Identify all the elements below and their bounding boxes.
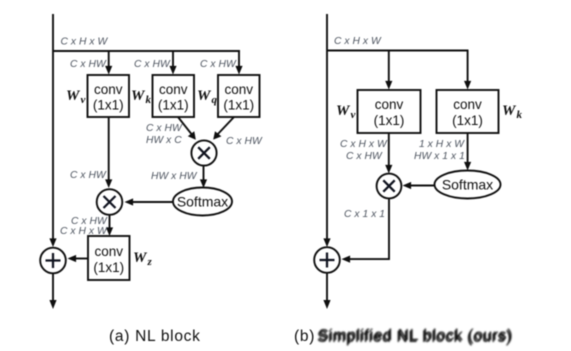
wire: conv Wz to adder (a) — [68, 255, 89, 262]
label C x HW / C x H x W (above conv Wz) — [60, 216, 108, 237]
wire: matmul (b) down then left to adder — [342, 199, 390, 263]
svg-text:k: k — [517, 109, 523, 121]
label C x H x W / C x HW (below conv Wv b) — [340, 139, 388, 162]
svg-text:(1x1): (1x1) — [158, 98, 189, 113]
label Wk (a) — [131, 88, 152, 106]
wire: matmul1 to softmax (a) — [200, 166, 207, 188]
conv box Wk (a) — [153, 75, 195, 117]
wire: branch arrow to conv Wk — [169, 51, 176, 75]
svg-text:C x 1 x 1: C x 1 x 1 — [344, 209, 385, 220]
wire: right branch drop (a) — [238, 51, 240, 72]
svg-text:(1x1): (1x1) — [93, 260, 124, 275]
svg-text:W: W — [66, 88, 81, 104]
label Wv (a) — [66, 88, 86, 106]
wire: top horizontal split (b) — [327, 50, 469, 52]
label Wq (a) — [197, 88, 218, 106]
svg-text:Softmax: Softmax — [177, 194, 228, 210]
wire: conv Wk (b) down to softmax — [464, 133, 471, 171]
svg-text:conv: conv — [94, 82, 123, 97]
wire: left residual vertical line — [52, 14, 54, 245]
svg-text:C x HW: C x HW — [134, 59, 171, 70]
svg-text:v: v — [351, 109, 356, 121]
arrowhead into adder (b) top — [323, 238, 330, 247]
svg-text:HW x C: HW x C — [146, 135, 182, 146]
wire: output arrow (b) — [323, 274, 330, 310]
conv box Wv (a) — [88, 75, 130, 117]
svg-text:C x H x W: C x H x W — [340, 139, 388, 150]
svg-text:Simplified NL block (ours): Simplified NL block (ours) — [318, 328, 513, 345]
wire: branch arrow to conv Wv — [105, 51, 112, 75]
label Wz — [133, 250, 153, 268]
svg-text:W: W — [197, 88, 212, 104]
wire: softmax to matmul2 (a) — [125, 198, 174, 205]
matmul node 2 (a) : circle with X — [97, 189, 123, 215]
svg-text:C x H x W: C x H x W — [61, 36, 109, 47]
conv box Wk (b) — [437, 90, 499, 133]
conv box Wz (a) — [88, 236, 130, 280]
wire: conv Wv (b) down to matmul — [385, 133, 392, 174]
arrowhead into conv Wk (b) — [464, 81, 471, 90]
softmax ellipse (a) — [173, 188, 232, 216]
svg-text:conv: conv — [375, 97, 404, 112]
wire: branch arrow to conv Wv (b) — [385, 51, 392, 90]
svg-text:conv: conv — [225, 82, 254, 97]
wire: top horizontal split (a) — [53, 50, 240, 52]
arrowhead into adder (a) top — [49, 238, 56, 247]
adder node (b) : circle with + — [314, 247, 340, 273]
svg-text:C x HW: C x HW — [226, 136, 263, 147]
svg-text:C x HW: C x HW — [346, 151, 383, 162]
label Wv (b) — [336, 103, 356, 121]
wire: softmax (b) to matmul — [403, 182, 435, 189]
svg-text:z: z — [147, 256, 153, 268]
svg-text:conv: conv — [95, 244, 124, 259]
svg-text:HW x HW: HW x HW — [151, 171, 198, 182]
wire: conv Wv down to matmul2 (a) — [105, 117, 112, 188]
svg-text:C x HW: C x HW — [70, 170, 107, 181]
label 1 x H x W / HW x 1 x 1 (below conv Wk b) — [414, 139, 465, 162]
wire: branch arrow to conv Wq — [235, 66, 242, 75]
caption (b) Simplified NL block (ours) — [294, 327, 513, 346]
svg-text:C x HW: C x HW — [200, 59, 237, 70]
svg-text:conv: conv — [159, 82, 188, 97]
svg-text:(1x1): (1x1) — [93, 98, 124, 113]
svg-text:(a) NL block: (a) NL block — [109, 328, 201, 345]
svg-text:C x H x W: C x H x W — [334, 36, 382, 47]
svg-text:C x HW: C x HW — [70, 59, 107, 70]
wire: right residual vertical line — [326, 14, 328, 245]
svg-text:W: W — [131, 88, 146, 104]
svg-text:W: W — [502, 103, 517, 119]
svg-text:conv: conv — [453, 97, 482, 112]
wire: output arrow (a) — [49, 274, 56, 309]
svg-text:Softmax: Softmax — [442, 177, 493, 193]
svg-text:(1x1): (1x1) — [223, 98, 254, 113]
svg-text:1 x H x W: 1 x H x W — [419, 139, 465, 150]
svg-text:q: q — [212, 94, 218, 106]
matmul node (b) : circle with X — [377, 174, 402, 199]
svg-text:HW x 1 x 1: HW x 1 x 1 — [414, 151, 465, 162]
matmul node 1 (a) : circle with X — [191, 140, 216, 165]
svg-text:C x HW: C x HW — [146, 123, 183, 134]
wire: conv Wk diagonal into matmul1 — [178, 117, 196, 140]
wire: right branch drop (b) — [467, 51, 469, 88]
conv box Wq (a) — [218, 75, 260, 117]
svg-text:W: W — [133, 250, 148, 266]
softmax ellipse (b) — [435, 171, 501, 199]
label Wk (b) — [502, 103, 523, 121]
conv box Wv (b) — [358, 90, 421, 133]
svg-text:(1x1): (1x1) — [452, 113, 483, 128]
svg-text:W: W — [336, 103, 351, 119]
wire: matmul2 down to conv Wz — [106, 216, 113, 237]
wire: conv Wq diagonal into matmul1 — [213, 117, 234, 140]
label C x HW / HW x C (left of matmul1) — [146, 123, 183, 146]
svg-text:(b): (b) — [294, 328, 315, 345]
adder node (a) : circle with + — [40, 248, 66, 274]
svg-text:v: v — [81, 94, 86, 106]
svg-text:k: k — [146, 94, 152, 106]
svg-text:(1x1): (1x1) — [374, 113, 405, 128]
